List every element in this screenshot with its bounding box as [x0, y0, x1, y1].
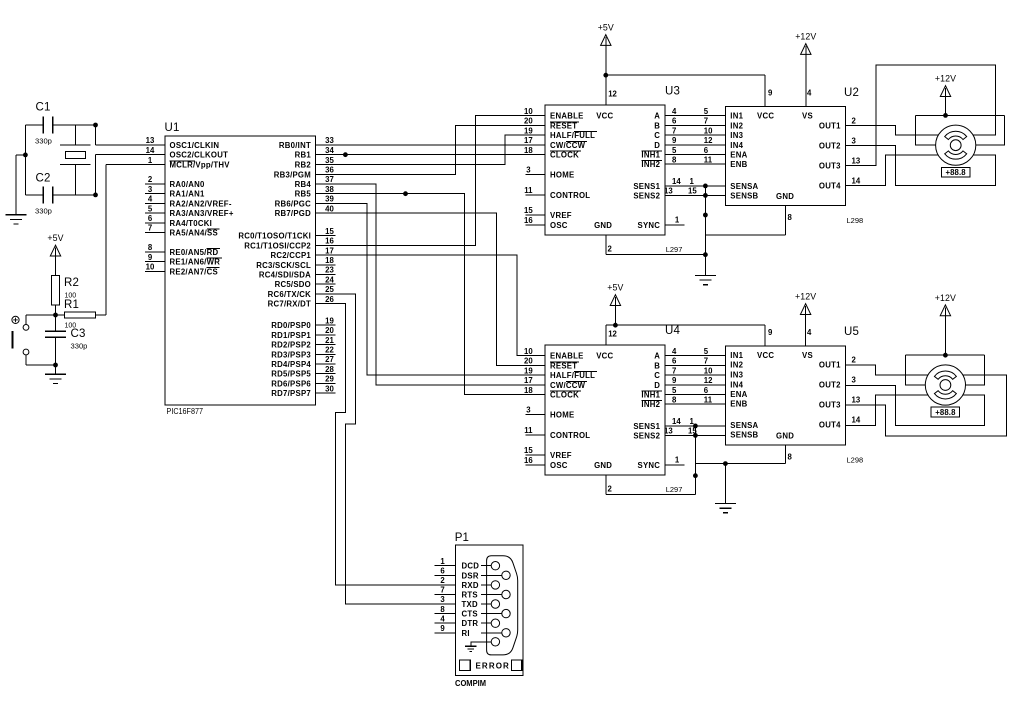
- wire U3 SENS1 to U2 SENSA: [665, 185, 726, 187]
- U1 pin 30 RD7/PSP7 stub: [315, 392, 335, 394]
- wire U5 OUT2 to M2: [846, 385, 985, 425]
- node U5 ground junction: [723, 461, 728, 466]
- wire U3 pin 7 to U2 pin 10: [665, 134, 726, 136]
- wire U4 pin 7 to U5 pin 10: [665, 374, 726, 376]
- svg-text:COMPIM: COMPIM: [455, 679, 486, 688]
- driver U5 L298 body: [726, 346, 846, 445]
- wire U3 GND pin 2 run: [606, 254, 706, 256]
- wire U4 pin 4 to U5 pin 5: [665, 355, 726, 357]
- wire sense column U3: [704, 186, 706, 255]
- svg-text:9: 9: [768, 328, 773, 337]
- svg-text:GND: GND: [594, 461, 612, 470]
- U5 pin 8 GND stem: [785, 445, 787, 464]
- U1 pin 1 MCLR overbar: [170, 160, 195, 162]
- svg-text:RC0/T1OSO/T1CKI: RC0/T1OSO/T1CKI: [238, 232, 311, 241]
- svg-text:PIC16F877: PIC16F877: [167, 407, 204, 416]
- svg-text:ENB: ENB: [730, 160, 747, 169]
- wire RB6 to U4 HALF/FULL: [315, 203, 545, 375]
- power +12V motor M1: [940, 86, 950, 97]
- svg-text:RD1/PSP1: RD1/PSP1: [271, 331, 311, 340]
- node reset ground junction: [53, 363, 58, 368]
- node osc bottom: [93, 193, 98, 198]
- svg-text:RC5/SDO: RC5/SDO: [275, 280, 311, 289]
- svg-text:4: 4: [807, 89, 812, 98]
- svg-text:INH1: INH1: [641, 391, 660, 400]
- svg-text:RB7/PGD: RB7/PGD: [275, 209, 312, 218]
- svg-text:6: 6: [704, 146, 709, 155]
- svg-text:19: 19: [524, 366, 533, 375]
- svg-text:9: 9: [672, 376, 677, 385]
- wire U3 pin 8 to U2 pin 11: [665, 163, 726, 165]
- wire RB3 to U3 RESET: [315, 125, 545, 174]
- P1 pin 1 DCD stub: [434, 565, 455, 567]
- svg-text:18: 18: [524, 386, 533, 395]
- svg-text:25: 25: [325, 285, 334, 294]
- U1 pin 8 RE0/AN5/RD stub: [145, 251, 165, 253]
- svg-text:8: 8: [672, 155, 677, 164]
- svg-text:OSC2/CLKOUT: OSC2/CLKOUT: [170, 151, 229, 160]
- U1 pin 2 RA0/AN0 stub: [145, 183, 165, 185]
- svg-text:12: 12: [704, 376, 713, 385]
- svg-text:B: B: [654, 121, 660, 130]
- svg-text:18: 18: [325, 256, 334, 265]
- node SENS U3 column: [703, 184, 708, 189]
- svg-text:16: 16: [524, 456, 533, 465]
- svg-text:17: 17: [325, 246, 334, 255]
- resistor R2 100: [55, 256, 57, 276]
- svg-text:+88.8: +88.8: [945, 168, 966, 177]
- svg-text:14: 14: [852, 176, 861, 185]
- stepper controller U4 L297 body: [545, 345, 665, 475]
- wire M1 left center tap: [916, 115, 936, 145]
- svg-text:RA2/AN2/VREF-: RA2/AN2/VREF-: [170, 199, 232, 208]
- wire OSC2 pin 14: [96, 154, 166, 156]
- svg-text:GND: GND: [594, 221, 612, 230]
- P1 pin 6 DSR stub: [434, 574, 455, 576]
- svg-text:1: 1: [148, 156, 153, 165]
- svg-text:L298: L298: [847, 455, 864, 464]
- svg-text:11: 11: [704, 155, 713, 164]
- svg-text:11: 11: [704, 395, 713, 404]
- U1 pin 19 RD0/PSP0 stub: [315, 324, 335, 326]
- svg-text:CONTROL: CONTROL: [550, 191, 590, 200]
- svg-text:RE0/AN5/RD: RE0/AN5/RD: [170, 248, 219, 257]
- U4 pin 10 ENABLE stub: [526, 355, 546, 357]
- svg-text:RD4/PSP4: RD4/PSP4: [271, 360, 311, 369]
- wire U3 pin 4 to U2 pin 5: [665, 115, 726, 117]
- svg-text:OUT2: OUT2: [819, 381, 841, 390]
- svg-text:IN4: IN4: [730, 141, 743, 150]
- svg-text:2: 2: [608, 244, 613, 253]
- motor M1 display +88.8: [941, 167, 969, 177]
- svg-text:R2: R2: [64, 277, 79, 289]
- svg-text:38: 38: [325, 185, 334, 194]
- U1 pin 9 RE1/AN6/WR stub: [145, 261, 165, 263]
- svg-text:VS: VS: [802, 351, 813, 360]
- wire U2 OUT1 to M1: [846, 125, 939, 135]
- node motor M1 +12V: [943, 113, 948, 118]
- U1 pin 7 RA5/AN4/SS stub: [145, 232, 165, 234]
- svg-text:40: 40: [325, 204, 334, 213]
- U1 pin 1 MCLR/Vpp/THV stub: [145, 164, 165, 166]
- svg-text:INH1: INH1: [641, 151, 660, 160]
- svg-text:5: 5: [672, 386, 677, 395]
- wire C3 to ground: [55, 365, 57, 374]
- svg-text:7: 7: [440, 586, 444, 595]
- svg-text:VS: VS: [802, 112, 813, 121]
- svg-text:19: 19: [524, 126, 533, 135]
- svg-text:SENSB: SENSB: [730, 431, 758, 440]
- U3 pin 3 HOME stub: [526, 174, 546, 176]
- wire +5V rail to U2 VCC: [606, 74, 765, 76]
- wire U5 OUT3 to M2: [846, 375, 1007, 436]
- svg-text:10: 10: [704, 126, 713, 135]
- stepper motor M1 body: [936, 125, 976, 165]
- svg-text:ENB: ENB: [730, 400, 747, 409]
- svg-text:SYNC: SYNC: [638, 461, 661, 470]
- wire RC2 to U4 ENABLE: [315, 255, 545, 356]
- U1 pin 5 RA3/AN3/VREF+ stub: [145, 212, 165, 214]
- svg-text:L297: L297: [666, 485, 683, 494]
- svg-text:SYNC: SYNC: [638, 221, 661, 230]
- svg-text:ENABLE: ENABLE: [550, 352, 584, 361]
- svg-text:RB5: RB5: [295, 190, 312, 199]
- svg-text:14: 14: [146, 146, 155, 155]
- svg-text:6: 6: [672, 117, 677, 126]
- svg-text:8: 8: [148, 243, 153, 252]
- wire to osc ground: [16, 154, 26, 156]
- U4 pin 16 OSC stub: [526, 464, 546, 466]
- svg-text:SENSA: SENSA: [730, 421, 758, 430]
- U4 pin 20 RESET stub: [526, 364, 546, 366]
- wire U4 pin 5 to U5 pin 6: [665, 394, 726, 396]
- U1 pin 13 OSC1/CLKIN stub: [145, 144, 165, 146]
- svg-text:IN3: IN3: [730, 370, 743, 379]
- svg-text:SENS1: SENS1: [633, 182, 660, 191]
- svg-text:RXD: RXD: [462, 581, 479, 590]
- svg-text:2: 2: [852, 116, 857, 125]
- svg-text:13: 13: [664, 187, 673, 196]
- svg-text:7: 7: [148, 224, 152, 233]
- wire OSC1 pin 13: [95, 125, 97, 145]
- svg-text:VCC: VCC: [596, 352, 613, 361]
- wire button top to node: [25, 315, 27, 325]
- svg-text:RB4: RB4: [295, 180, 312, 189]
- U1 pin 9 WR overbar: [207, 257, 222, 259]
- U3 pin 18 CLOCK stub: [526, 154, 546, 156]
- svg-text:3: 3: [440, 595, 445, 604]
- ground U5 area: [715, 503, 736, 505]
- U1 pin 3 RA1/AN1 stub: [145, 193, 165, 195]
- svg-text:C: C: [654, 131, 660, 140]
- svg-text:16: 16: [325, 237, 334, 246]
- power +12V U2 VS: [801, 44, 811, 55]
- svg-text:DCD: DCD: [462, 562, 480, 571]
- node reset R2 R1 C3: [53, 313, 58, 318]
- svg-text:RC4/SDI/SDA: RC4/SDI/SDA: [259, 271, 311, 280]
- svg-text:13: 13: [146, 136, 155, 145]
- U1 pin 20 RD1/PSP1 stub: [315, 334, 335, 336]
- svg-text:OUT1: OUT1: [819, 121, 841, 130]
- svg-text:IN1: IN1: [730, 112, 743, 121]
- svg-text:U3: U3: [665, 86, 680, 98]
- wire U4 pin 6 to U5 pin 7: [665, 364, 726, 366]
- svg-text:4: 4: [672, 347, 677, 356]
- power +12V U5 VS: [800, 304, 810, 315]
- U1 pin 10 RE2/AN7/CS stub: [145, 270, 165, 272]
- svg-text:8: 8: [788, 452, 793, 461]
- crystal X1: [75, 125, 77, 145]
- svg-text:13: 13: [852, 156, 861, 165]
- node osc top: [93, 123, 98, 128]
- svg-text:20: 20: [524, 117, 533, 126]
- svg-text:L298: L298: [847, 216, 864, 225]
- wire U4 pin 9 to U5 pin 12: [665, 384, 726, 386]
- wire +12V rail motor M1: [916, 114, 1005, 116]
- svg-text:SENSA: SENSA: [730, 182, 758, 191]
- svg-text:C2: C2: [36, 173, 51, 185]
- ground U3 area: [695, 274, 716, 276]
- svg-text:OUT4: OUT4: [819, 421, 841, 430]
- svg-text:U2: U2: [844, 87, 859, 99]
- svg-text:20: 20: [325, 326, 334, 335]
- node motor M2 +12V: [943, 353, 948, 358]
- svg-text:2: 2: [608, 484, 613, 493]
- svg-text:28: 28: [325, 365, 334, 374]
- svg-text:36: 36: [325, 166, 334, 175]
- svg-text:19: 19: [325, 316, 334, 325]
- svg-text:IN3: IN3: [730, 131, 743, 140]
- svg-text:A: A: [654, 352, 660, 361]
- svg-text:7: 7: [672, 126, 676, 135]
- ground reset: [45, 373, 66, 375]
- svg-text:18: 18: [524, 146, 533, 155]
- svg-text:DTR: DTR: [462, 619, 479, 628]
- svg-text:IN1: IN1: [730, 351, 743, 360]
- stepper controller U3 L297 body: [545, 105, 665, 235]
- wire M2 right center tap: [966, 355, 985, 385]
- svg-text:330p: 330p: [35, 207, 52, 216]
- microcontroller U1 PIC16F877 body: [165, 136, 315, 405]
- svg-text:9: 9: [768, 89, 773, 98]
- wire RB0 to U3 CW/CCW: [315, 144, 545, 146]
- svg-text:+5V: +5V: [47, 233, 63, 243]
- svg-text:6: 6: [440, 567, 445, 576]
- svg-text:OUT2: OUT2: [819, 141, 841, 150]
- svg-text:+5V: +5V: [598, 23, 614, 33]
- wire M2 left center tap: [906, 355, 926, 385]
- svg-text:5: 5: [704, 107, 709, 116]
- svg-text:4: 4: [440, 614, 445, 623]
- svg-text:OSC1/CLKIN: OSC1/CLKIN: [170, 141, 220, 150]
- svg-text:RC7/RX/DT: RC7/RX/DT: [268, 300, 311, 309]
- U4 pin 19 HALF/FULL stub: [526, 374, 546, 376]
- svg-text:L297: L297: [666, 245, 683, 254]
- U3 pin 19 HALF/FULL stub: [526, 134, 546, 136]
- svg-text:R1: R1: [64, 299, 79, 311]
- svg-text:3: 3: [526, 406, 531, 415]
- svg-text:9: 9: [440, 624, 445, 633]
- svg-text:4: 4: [672, 107, 677, 116]
- U4 pin 11 CONTROL stub: [526, 434, 546, 436]
- node osc left junction: [23, 153, 28, 158]
- connector P1 COMPIM body: [455, 545, 523, 676]
- wire RB1 to U3 CLOCK: [315, 154, 545, 156]
- svg-text:VCC: VCC: [596, 112, 613, 121]
- svg-text:30: 30: [325, 384, 334, 393]
- node on RB5 wire: [403, 191, 408, 196]
- U1 pin 29 RD6/PSP6 stub: [315, 382, 335, 384]
- wire U5 GND pin 8 run: [695, 463, 785, 465]
- wire ground lead U3 area: [704, 255, 706, 276]
- svg-text:9: 9: [672, 136, 677, 145]
- svg-text:RD6/PSP6: RD6/PSP6: [271, 379, 311, 388]
- wire R1 to MCLR pin 1: [105, 165, 107, 315]
- U2 pin 8 GND stem: [785, 206, 787, 236]
- U3 pin 11 CONTROL stub: [526, 194, 546, 196]
- svg-text:D: D: [654, 141, 660, 150]
- svg-text:29: 29: [325, 375, 334, 384]
- svg-text:11: 11: [524, 426, 533, 435]
- svg-text:2: 2: [852, 356, 857, 365]
- svg-text:7: 7: [704, 117, 708, 126]
- P1 pin 4 DTR stub: [434, 622, 455, 624]
- svg-text:IN2: IN2: [730, 121, 743, 130]
- resistor R1 100: [56, 314, 65, 316]
- svg-text:RA1/AN1: RA1/AN1: [170, 190, 206, 199]
- svg-text:HALF/FULL: HALF/FULL: [550, 131, 595, 140]
- svg-text:6: 6: [704, 386, 709, 395]
- U1 pin 6 RA4/T0CKI stub: [145, 222, 165, 224]
- svg-text:SENS1: SENS1: [633, 422, 660, 431]
- U1 pin 21 RD2/PSP2 stub: [315, 344, 335, 346]
- node U3 ground junction: [703, 252, 708, 257]
- svg-text:15: 15: [524, 446, 533, 455]
- capacitor C1 330p: [25, 124, 43, 126]
- wire U2 OUT2 to M1: [846, 145, 996, 185]
- svg-text:6: 6: [672, 357, 677, 366]
- P1 ERROR indicator squares: [460, 660, 471, 671]
- capacitor C2 330p: [25, 194, 43, 196]
- svg-text:HOME: HOME: [550, 411, 574, 420]
- svg-text:RB6/PGC: RB6/PGC: [275, 199, 312, 208]
- svg-text:1: 1: [690, 177, 695, 186]
- svg-text:8: 8: [788, 213, 793, 222]
- wire U3 pin 6 to U2 pin 7: [665, 124, 726, 126]
- ground osc: [5, 214, 26, 216]
- U1 pin 7 SS overbar: [207, 228, 220, 230]
- wire RC7/RX to P1 RXD: [315, 304, 455, 585]
- svg-text:RA0/AN0: RA0/AN0: [170, 180, 206, 189]
- svg-text:15: 15: [524, 206, 533, 215]
- svg-text:3: 3: [852, 376, 857, 385]
- svg-text:5: 5: [672, 146, 677, 155]
- svg-text:+12V: +12V: [935, 293, 956, 303]
- wire U2 OUT3 to M1: [846, 65, 996, 165]
- wire U2 OUT4 to M1: [846, 155, 939, 185]
- wire sense column U4: [694, 426, 696, 495]
- node SENS U4 column: [693, 424, 698, 429]
- U4 pin 18 CLOCK stub: [526, 394, 546, 396]
- svg-text:2: 2: [440, 576, 445, 585]
- U3 pin 16 OSC stub: [526, 224, 546, 226]
- svg-text:RI: RI: [462, 629, 470, 638]
- power +12V motor M2: [940, 305, 950, 316]
- svg-text:RC2/CCP1: RC2/CCP1: [270, 251, 311, 260]
- U4 pin 15 VREF stub: [526, 454, 546, 456]
- svg-text:RD0/PSP0: RD0/PSP0: [271, 321, 311, 330]
- svg-text:HOME: HOME: [550, 171, 574, 180]
- svg-text:OUT3: OUT3: [819, 401, 841, 410]
- svg-text:39: 39: [325, 195, 334, 204]
- P1 pin 9 RI stub: [434, 632, 455, 634]
- svg-text:VCC: VCC: [757, 112, 774, 121]
- svg-text:3: 3: [526, 166, 531, 175]
- U1 pin 14 OSC2/CLKOUT stub: [145, 154, 165, 156]
- U1 pin 4 RA2/AN2/VREF- stub: [145, 202, 165, 204]
- svg-text:C: C: [654, 371, 660, 380]
- svg-text:14: 14: [852, 416, 861, 425]
- svg-text:ENABLE: ENABLE: [550, 112, 584, 121]
- wire RB2 to U3 HALF/FULL: [315, 135, 545, 165]
- wire +12V rail motor M2: [906, 354, 985, 356]
- svg-text:+88.8: +88.8: [935, 408, 956, 417]
- svg-text:2: 2: [148, 175, 153, 184]
- svg-text:RTS: RTS: [462, 591, 478, 600]
- svg-text:+12V: +12V: [795, 32, 816, 42]
- svg-text:CW/CCW: CW/CCW: [550, 381, 586, 390]
- svg-text:RC3/SCK/SCL: RC3/SCK/SCL: [256, 261, 311, 270]
- wire RB7 to U4 RESET: [315, 213, 545, 365]
- wire ground lead U5 area: [724, 464, 726, 504]
- svg-text:INH2: INH2: [641, 160, 660, 169]
- svg-text:15: 15: [325, 227, 334, 236]
- svg-text:1: 1: [675, 456, 680, 465]
- wire U2 GND pin 8 run: [705, 234, 785, 236]
- svg-text:10: 10: [704, 366, 713, 375]
- svg-text:CONTROL: CONTROL: [550, 431, 590, 440]
- wire U3 VCC pin 12: [605, 75, 607, 105]
- P1 pin 8 CTS stub: [434, 613, 455, 615]
- wire U4 VCC pin 12: [605, 325, 607, 345]
- wire U3 SENS2 to U2 SENSB: [665, 194, 726, 196]
- power +5V U4 rail: [610, 295, 620, 306]
- svg-text:SENSB: SENSB: [730, 191, 758, 200]
- motor M2 display +88.8: [931, 407, 959, 417]
- svg-text:OUT1: OUT1: [819, 361, 841, 370]
- U3 pin 2 GND stem: [605, 235, 607, 255]
- svg-text:RESET: RESET: [550, 361, 577, 370]
- svg-text:RA3/AN3/VREF+: RA3/AN3/VREF+: [170, 209, 234, 218]
- svg-text:10: 10: [524, 347, 533, 356]
- svg-text:C1: C1: [36, 102, 51, 114]
- U4 pin 17 CW/CCW stub: [526, 384, 546, 386]
- svg-text:RC1/T1OSI/CCP2: RC1/T1OSI/CCP2: [244, 241, 311, 250]
- svg-text:ERROR: ERROR: [476, 661, 510, 670]
- svg-text:13: 13: [852, 396, 861, 405]
- wire RB4 to U4 CW/CCW: [315, 184, 545, 385]
- svg-text:RB1: RB1: [295, 151, 312, 160]
- svg-text:CTS: CTS: [462, 610, 478, 619]
- svg-text:CW/CCW: CW/CCW: [550, 141, 586, 150]
- svg-text:RE1/AN6/WR: RE1/AN6/WR: [170, 258, 221, 267]
- svg-text:RC6/TX/CK: RC6/TX/CK: [268, 290, 312, 299]
- svg-text:RB3/PGM: RB3/PGM: [274, 170, 311, 179]
- svg-text:4: 4: [807, 328, 812, 337]
- svg-text:MCLR/Vpp/THV: MCLR/Vpp/THV: [170, 161, 231, 170]
- svg-text:VREF: VREF: [550, 451, 572, 460]
- svg-text:D: D: [654, 381, 660, 390]
